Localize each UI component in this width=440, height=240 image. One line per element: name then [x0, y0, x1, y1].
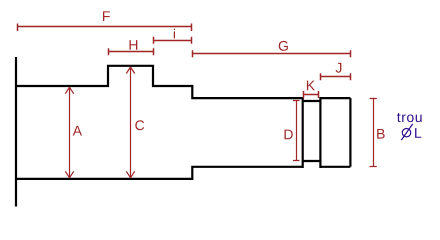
end cylinder bottom — [320, 166, 350, 168]
hole label diameter symbol — [401, 124, 412, 140]
dimension J label — [336, 63, 342, 73]
hole label L — [415, 128, 421, 138]
dimension A arrow — [65, 87, 73, 178]
groove bottom — [303, 160, 321, 162]
groove right face — [319, 97, 321, 168]
dimension H label — [130, 40, 138, 50]
dimension D label — [285, 130, 293, 140]
dimension F line — [18, 24, 192, 32]
shaft right end face — [349, 98, 351, 167]
dimension G label — [279, 41, 288, 51]
shaft top profile — [16, 66, 303, 98]
dimension D line — [293, 101, 300, 161]
dimension B line — [370, 98, 377, 167]
shaft bottom profile — [16, 167, 303, 179]
dimension C label — [135, 120, 144, 130]
dimension B label — [377, 129, 384, 139]
dimension i line — [154, 37, 192, 44]
hole label trou — [397, 113, 422, 122]
dimension G line — [193, 50, 351, 57]
dimension K label — [307, 81, 315, 91]
end cylinder top — [320, 97, 350, 99]
dimension H line — [109, 48, 154, 55]
dimension i label — [174, 29, 175, 39]
dimension C arrow — [126, 67, 134, 178]
dimension A label — [73, 126, 82, 136]
dimension J line — [321, 73, 351, 80]
shaft left end face — [15, 57, 17, 207]
groove top — [303, 100, 321, 102]
dimension K line — [304, 91, 319, 98]
shoulder face at groove left — [302, 97, 304, 168]
dimension F label — [103, 11, 110, 21]
